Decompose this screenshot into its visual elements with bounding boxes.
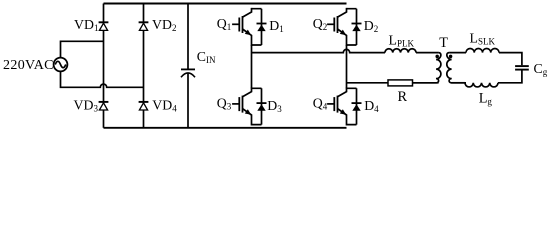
diode D1 (antiparallel) [252,9,267,45]
capacitor Cg [515,66,529,70]
svg-text:VD1: VD1 [74,17,98,33]
wire Lg to secondary bottom lead [451,82,465,84]
diode VD1 (bridge rectifier) [99,21,109,23]
svg-text:Cg: Cg [534,61,548,77]
svg-text:D4: D4 [364,98,379,114]
svg-text:VD2: VD2 [152,17,176,33]
wire bridge leg 1 (VD1/VD3) [103,4,105,128]
svg-text:CIN: CIN [197,49,216,65]
transformer T primary polarity dot [435,55,439,59]
svg-text:VD3: VD3 [74,98,99,114]
transformer T secondary winding [447,53,466,83]
diode D2 (antiparallel) [347,9,362,45]
transistor Q3 [232,87,251,125]
svg-text:Q3: Q3 [217,95,232,111]
svg-text:Q4: Q4 [313,95,328,111]
transistor Q4 [327,87,346,125]
diode VD3 (bridge rectifier) [99,101,109,103]
wire bridge leg 2 (VD2/VD4) [143,4,145,128]
diode D4 (antiparallel) [347,88,362,124]
wire inverter leg left (Q1/Q3) [251,45,253,88]
transformer T secondary polarity dot [449,55,453,59]
svg-text:Q2: Q2 [313,16,327,32]
wire LPLK to transformer primary top [416,52,439,54]
diode VD2 (bridge rectifier) [139,21,149,23]
svg-text:VD4: VD4 [152,98,177,114]
svg-text:220VAC: 220VAC [3,58,54,73]
inductor LPLK [385,49,416,53]
transistor Q2 [327,8,346,46]
inductor LSLK [466,48,499,52]
wire DC bus top rail [104,3,347,5]
wire LSLK to Cg top [499,53,522,66]
resistor R [388,80,413,86]
svg-text:LPLK: LPLK [389,32,415,48]
svg-text:D2: D2 [364,18,378,34]
wire secondary top lead [449,52,466,54]
wire source bottom to bridge leg 2 (hop over leg 1) [61,71,144,87]
svg-text:R: R [398,89,408,105]
wire Cg bottom to Lg [498,71,522,83]
inductor Lg [465,83,498,87]
wire inverter leg right (Q2/Q4) [346,45,348,88]
svg-text:D3: D3 [267,98,282,114]
AC source 220VAC [54,58,68,72]
wire R to transformer primary bottom [413,82,439,84]
svg-text:T: T [439,35,448,51]
diode VD4 (bridge rectifier) [139,101,149,103]
svg-text:Lg: Lg [479,91,493,107]
svg-text:Q1: Q1 [217,16,231,32]
transistor Q1 [232,8,251,46]
wire node B (right leg midpoint) to resistor R [347,82,389,84]
transformer T primary winding [413,53,441,83]
svg-text:LSLK: LSLK [470,30,496,46]
diode D3 (antiparallel) [252,88,267,124]
wire node A (left leg midpoint) to primary, hop over right leg [252,49,386,52]
wire DC bus bottom rail [104,127,347,129]
wire source top to bridge leg 1 [61,41,104,57]
svg-text:D1: D1 [269,18,283,34]
capacitor CIN [181,4,195,128]
